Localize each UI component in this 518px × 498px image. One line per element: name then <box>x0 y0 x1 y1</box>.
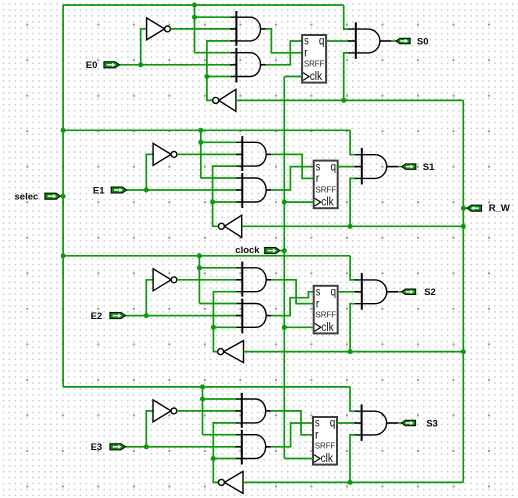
wire stage4 feed vertical <box>202 387 204 435</box>
svg-text:r: r <box>304 48 308 60</box>
node stage3 feed junction on selec rail <box>61 253 66 258</box>
wire AND1out input 3 from U1b rail <box>344 53 350 101</box>
wire AND4out to S3 pin <box>398 422 402 424</box>
wire A5 output to SRFF3 r <box>271 280 313 304</box>
node AND3out input 3 junction <box>348 349 353 354</box>
svg-text:s: s <box>316 161 321 173</box>
and-gate A4 <box>236 173 266 208</box>
wire stage3 top feed <box>63 255 350 257</box>
svg-text:SRFF: SRFF <box>316 185 337 194</box>
inverter U3a <box>153 269 177 291</box>
node U2b output junction <box>210 200 215 205</box>
wire R_W rail vertical <box>462 100 464 482</box>
wire stage4 feed branch to AND7 input 1 <box>203 398 238 400</box>
wire stage1 top feed <box>63 4 344 6</box>
wire stage2 feed to AND4 input 1 <box>201 177 238 179</box>
and-gate AND2out <box>355 148 387 185</box>
wire stage1 feed to AND2 input 1 <box>195 52 232 54</box>
wire AND4out input 3 from U4b rail <box>350 435 356 483</box>
and-gate A2 <box>230 48 260 83</box>
wire stage3 feed to AND6 input 1 <box>199 303 237 305</box>
and-gate A1 <box>230 11 260 46</box>
pin input E3 <box>110 444 126 450</box>
wire E0 to AND2 input 2 <box>119 64 232 66</box>
wire AND3out to S2 pin <box>398 291 402 293</box>
node stage3 feed junction branch <box>197 265 202 270</box>
pin output S0 <box>396 38 410 44</box>
wire R_W pin to rail <box>463 207 467 209</box>
label E0 <box>86 60 98 71</box>
wire feed to AND1out input 1 <box>344 5 350 29</box>
wire E1 to AND4 input 2 <box>126 189 237 191</box>
wire A2 output to SRFF1 s <box>266 41 303 65</box>
wire SRFF1 q to AND1out <box>326 40 350 42</box>
svg-text:E0: E0 <box>86 60 98 71</box>
svg-text:S0: S0 <box>417 36 429 47</box>
svg-text:SRFF: SRFF <box>304 60 325 69</box>
svg-text:clk: clk <box>310 71 323 83</box>
label E2 <box>91 311 103 322</box>
pin input E2 <box>110 313 126 319</box>
wire clock pin to rail <box>280 250 284 252</box>
flip-flop SRFF1 <box>302 35 326 83</box>
wire SRFF2 q to AND2out <box>338 166 357 168</box>
wire stage2 top feed <box>63 129 350 131</box>
wire AND2out to S1 pin <box>398 166 403 168</box>
node AND1out input 3 junction <box>341 98 346 103</box>
wire inverter U1a output to AND1 input 2 <box>171 28 232 30</box>
node stage3 feed junction top <box>197 253 202 258</box>
svg-text:s: s <box>316 287 321 299</box>
node AND4out input 3 junction <box>348 480 353 485</box>
node R_W stage2 junction <box>461 224 466 229</box>
wire stage4 top feed <box>63 386 350 388</box>
svg-text:s: s <box>304 36 309 48</box>
wire inverter U1b output rail <box>207 41 232 101</box>
node stage4 feed junction top <box>200 384 205 389</box>
wire feed to AND2out input 1 <box>350 130 356 154</box>
and-gate A6 <box>236 299 266 334</box>
wire U2b junction to AND4 input 3 <box>213 201 238 203</box>
node selec junction <box>61 194 66 199</box>
wire E0 junction up to inverter <box>141 29 147 65</box>
inverter U1a <box>147 18 171 40</box>
label selec <box>15 191 39 202</box>
wire stage3 feed branch to AND5 input 1 <box>199 267 237 269</box>
wire AND2out input 3 from U2b rail <box>350 178 356 226</box>
wire left selec rail vertical <box>62 5 64 387</box>
wire E1 junction up to inverter <box>146 154 153 190</box>
node E2 junction <box>144 313 149 318</box>
wire AND1out to S0 pin <box>391 40 397 42</box>
label S2 <box>424 287 436 298</box>
flip-flop SRFF3 <box>314 286 338 334</box>
wire stage2 feed branch to AND3 input 1 <box>201 141 238 143</box>
label R_W <box>489 203 510 214</box>
inverter U4a <box>153 400 177 422</box>
svg-text:q: q <box>331 161 337 173</box>
svg-text:q: q <box>330 418 336 430</box>
svg-text:clk: clk <box>321 197 334 209</box>
wire feed to AND4out input 1 <box>350 387 356 411</box>
wire E2 junction up to inverter <box>146 280 153 316</box>
wire clock rail to SRFF1 clk <box>284 76 302 78</box>
label S0 <box>417 36 429 47</box>
node R_W junction <box>461 206 466 211</box>
and-gate AND3out <box>355 273 387 310</box>
svg-text:q: q <box>319 36 325 48</box>
svg-text:clock: clock <box>235 245 260 256</box>
wire A7 output stub <box>266 410 271 412</box>
wire SRFF3 q to AND3out <box>338 291 357 293</box>
wire AND4out output stub <box>387 422 399 424</box>
label S3 <box>426 418 438 429</box>
wire inverter U3b output rail <box>213 292 237 352</box>
wire A2 output stub <box>261 64 266 66</box>
wire A4 output to SRFF2 s <box>271 167 313 190</box>
wire stage2 feed vertical <box>200 130 202 178</box>
svg-text:r: r <box>315 430 319 442</box>
wire A1 output to SRFF1 r <box>266 29 303 53</box>
svg-text:E3: E3 <box>91 442 103 453</box>
wire inverter U2b output rail <box>213 166 238 226</box>
svg-text:r: r <box>316 173 320 185</box>
wire U3b input from R_W rail <box>244 351 464 353</box>
wire E3 junction up to inverter <box>146 411 153 447</box>
wire AND3out output stub <box>387 291 399 293</box>
wire A4 output stub <box>266 189 271 191</box>
node stage1 feed junction top <box>192 3 197 8</box>
wire U3b junction to AND6 input 3 <box>213 326 237 328</box>
wire U4b input from R_W rail <box>243 481 463 483</box>
inverter U3b <box>218 341 244 363</box>
node R_W stage3 junction <box>461 349 466 354</box>
wire U2b input from R_W rail <box>242 225 464 227</box>
svg-text:S1: S1 <box>423 162 435 173</box>
svg-text:E1: E1 <box>93 185 105 196</box>
pin output S2 <box>402 289 416 295</box>
node clock junction stage3 <box>282 325 287 330</box>
wire U1b junction to AND2 input 3 <box>207 76 232 78</box>
wire stage1 feed vertical <box>194 5 196 53</box>
wire inverter U2a output to AND3 input 2 <box>177 153 238 155</box>
wire clock rail to SRFF2 clk <box>284 201 313 203</box>
wire A3 output to SRFF2 r <box>271 154 313 178</box>
node stage2 feed junction on selec rail <box>61 128 66 133</box>
wire selec pin to rail <box>60 195 63 197</box>
wire A5 output stub <box>266 279 271 281</box>
wire A1 output stub <box>261 28 266 30</box>
and-gate A8 <box>236 430 266 465</box>
node E1 junction <box>144 188 149 193</box>
wire E2 to AND6 input 2 <box>125 315 238 317</box>
wire A6 output to SRFF3 s <box>271 292 313 316</box>
wire U4b junction to AND8 input 3 <box>213 458 237 460</box>
svg-text:R_W: R_W <box>489 203 510 214</box>
wire A6 output stub <box>266 315 271 317</box>
label S1 <box>423 162 435 173</box>
node stage4 feed junction branch <box>200 397 205 402</box>
node clock junction stage2 <box>282 200 287 205</box>
inverter U2b <box>218 215 241 237</box>
pin input E1 <box>111 187 127 193</box>
label E1 <box>93 185 105 196</box>
pin input E0 <box>104 62 120 68</box>
svg-text:E2: E2 <box>91 311 103 322</box>
and-gate A7 <box>236 393 266 428</box>
wire E3 to AND8 input 2 <box>125 446 237 448</box>
svg-text:clk: clk <box>321 322 334 334</box>
svg-text:SRFF: SRFF <box>316 311 337 320</box>
and-gate A5 <box>236 262 266 297</box>
node clock junction <box>282 248 287 253</box>
node U3b output junction <box>211 325 216 330</box>
wire AND1out output stub <box>380 40 392 42</box>
svg-text:r: r <box>316 298 320 310</box>
and-gate AND1out <box>348 22 380 59</box>
wire SRFF4 q to AND4out <box>337 422 356 424</box>
wire A8 output stub <box>266 446 271 448</box>
node stage2 feed junction top <box>198 128 203 133</box>
svg-text:clk: clk <box>321 453 334 465</box>
node stage2 feed junction branch <box>198 140 203 145</box>
pin output S3 <box>401 420 415 426</box>
svg-text:s: s <box>315 418 320 430</box>
wire A8 output to SRFF4 s <box>271 423 313 447</box>
wire AND2out output stub <box>387 166 399 168</box>
and-gate A3 <box>236 136 266 171</box>
wire clock rail to SRFF4 clk <box>284 458 313 460</box>
wire inverter U4b output rail <box>213 423 237 483</box>
inverter U1b <box>213 89 236 111</box>
node E3 junction <box>144 444 149 449</box>
wire stage1 feed branch to AND1 input 1 <box>195 16 232 18</box>
wire stage3 feed vertical <box>198 256 200 304</box>
wire feed to AND3out input 1 <box>350 256 356 280</box>
wire A7 output to SRFF4 r <box>271 411 313 435</box>
wire A3 output stub <box>266 153 271 155</box>
and-gate AND4out <box>355 404 387 441</box>
wire clock rail vertical <box>283 77 285 459</box>
svg-text:S3: S3 <box>426 418 438 429</box>
inverter U2a <box>153 143 177 165</box>
svg-text:S2: S2 <box>424 287 436 298</box>
pin output S1 <box>402 164 416 170</box>
svg-text:selec: selec <box>15 191 39 202</box>
wire inverter U3a output to AND5 input 2 <box>177 279 238 281</box>
node U4b output junction <box>211 456 216 461</box>
wire clock rail to SRFF3 clk <box>284 326 313 328</box>
node stage1 feed junction branch <box>192 15 197 20</box>
pin input R_W <box>467 205 482 211</box>
label clock <box>235 245 260 256</box>
flip-flop SRFF2 <box>314 161 338 209</box>
wire U1b input from R_W rail <box>236 99 463 101</box>
pin input clock <box>265 248 280 254</box>
pin input selec <box>45 193 61 199</box>
flip-flop SRFF4 <box>313 417 337 465</box>
svg-text:q: q <box>331 287 337 299</box>
svg-text:SRFF: SRFF <box>315 442 336 451</box>
wire inverter U4a output to AND7 input 2 <box>177 410 237 412</box>
node E0 junction <box>138 62 143 67</box>
node U1b output junction <box>204 74 209 79</box>
wire stage4 feed to AND8 input 1 <box>203 434 238 436</box>
label E3 <box>91 442 103 453</box>
wire AND3out input 3 from U3b rail <box>350 304 356 352</box>
inverter U4b <box>218 471 243 493</box>
node AND2out input 3 junction <box>348 224 353 229</box>
